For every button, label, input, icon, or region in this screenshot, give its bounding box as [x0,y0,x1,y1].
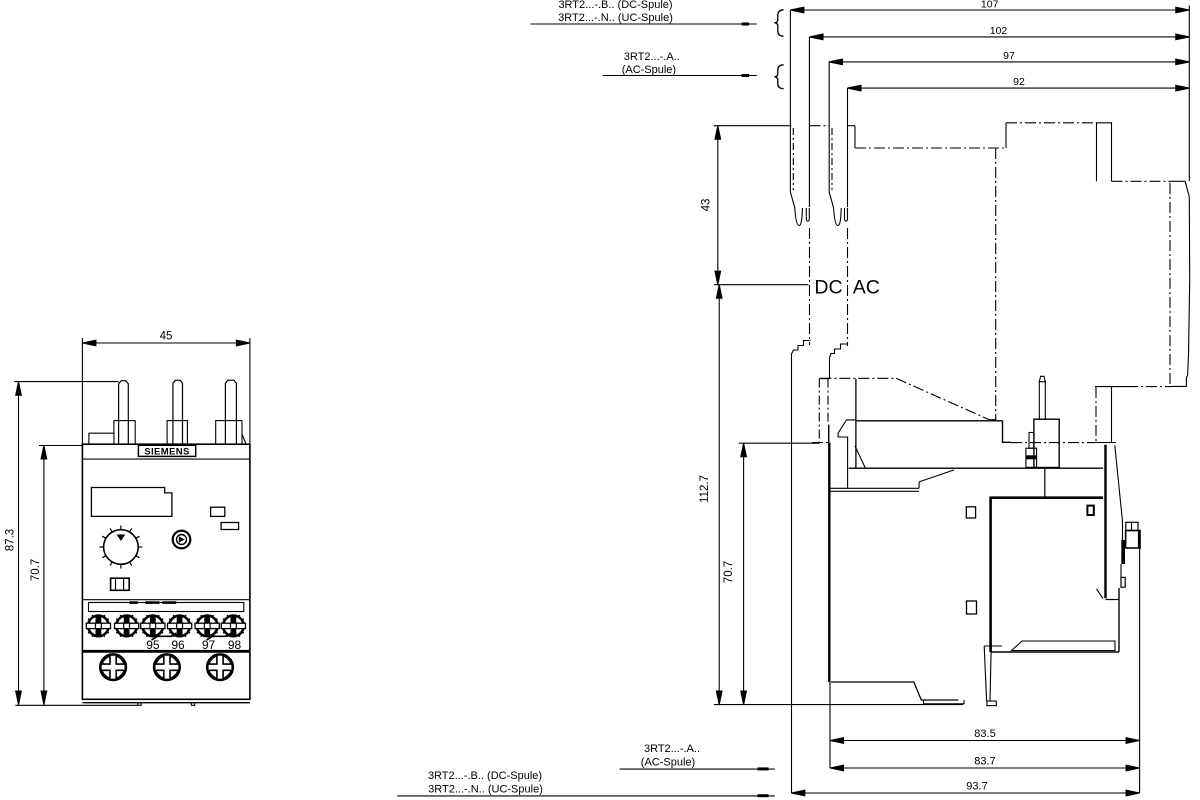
thick divider [82,650,250,653]
reset slider [111,578,130,590]
svg-text:96: 96 [171,638,185,652]
DC AC level line [714,284,809,286]
baseline bottom extension [714,704,963,706]
svg-text:83.7: 83.7 [974,756,995,768]
pin 3 collar [216,421,242,445]
dimension 43 [715,126,721,285]
relay top edge [856,420,1002,422]
terminal section divider [82,599,250,601]
right outer edge [1171,181,1190,386]
right extension line [1188,6,1190,182]
lower box [991,496,1103,499]
svg-text:AC: AC [853,277,880,299]
extension to bottom dims [1139,548,1141,793]
svg-text:95: 95 [146,638,160,652]
bottom foot [831,682,958,700]
pin DC outline [790,126,809,226]
dimension 83.5 [830,738,1140,744]
svg-text:107: 107 [981,0,999,11]
label window [91,488,171,517]
dimension 70.7 left [39,446,82,705]
svg-text:45: 45 [160,331,173,343]
svg-text:3RT2...-.A..: 3RT2...-.A.. [644,743,700,755]
dimension 102 [809,34,1189,207]
dimension 83.7 [830,765,1140,771]
terminal screw small 3 [141,615,165,637]
terminal screw small 5 [195,615,219,637]
terminal screw large 2 [155,655,180,680]
svg-text:70.7: 70.7 [30,559,42,581]
svg-text:70.7: 70.7 [723,561,735,583]
brace AC [774,65,783,89]
terminal screw small 2 [115,615,139,637]
svg-text:3RT2...-.A..: 3RT2...-.A.. [624,51,680,63]
terminal screw small 1 [86,615,110,637]
extension to 83.5/83.7 dims [829,682,831,768]
43 top extension / part top [714,125,792,127]
svg-text:43: 43 [701,199,713,212]
relay back edge [828,425,830,443]
svg-text:83.5: 83.5 [974,728,995,740]
step right of top edge [1003,421,1011,443]
recessed strip [89,603,244,612]
svg-text:DC: DC [814,277,842,299]
test button [173,531,191,549]
dimension 70.7 right [739,443,820,704]
svg-text:92: 92 [1013,76,1025,88]
terminal screw small 4 [168,615,192,637]
svg-text:3RT2...-.B.. (DC-Spule): 3RT2...-.B.. (DC-Spule) [558,0,672,11]
pin 3 blade [225,380,236,444]
svg-text:102: 102 [990,25,1008,37]
terminal screw large 1 [101,655,126,680]
bottom base [82,702,250,704]
label leader marks [152,633,177,640]
thin mounting strip [829,487,919,489]
pin 1 blade [119,381,129,445]
small rect A [211,507,225,516]
bracket AC [830,344,849,379]
svg-text:(AC-Spule): (AC-Spule) [622,64,676,76]
mid bottom edge [849,467,1103,469]
dimension 93.7 [791,790,1139,796]
svg-text:(AC-Spule): (AC-Spule) [641,757,695,769]
dimension 112.7 [716,285,722,705]
svg-text:97: 97 [202,638,216,652]
svg-text:3RT2...-.N.. (UC-Spule): 3RT2...-.N.. (UC-Spule) [558,12,673,24]
front vertical [855,379,857,469]
dimension 87.3 left [14,382,138,706]
terminal screw large 3 [208,655,233,680]
svg-text:97: 97 [1003,50,1015,62]
top right tab [1097,123,1112,182]
right mid tab [1095,386,1127,388]
relay body outline [82,444,250,699]
top strip line [82,458,250,460]
dimension 107 [790,7,1189,126]
phantom top of relay [820,377,896,379]
svg-text:98: 98 [228,638,242,652]
pin 2 blade [173,380,183,444]
svg-text:3RT2...-.B.. (DC-Spule): 3RT2...-.B.. (DC-Spule) [428,770,542,782]
release latch [984,646,986,701]
top hook [838,420,856,489]
svg-text:112.7: 112.7 [699,475,711,503]
pin 2 collar [167,421,187,445]
ledge left of pin 1 [89,433,114,444]
svg-text:87.3: 87.3 [5,529,17,551]
svg-text:SIEMENS: SIEMENS [144,447,190,458]
adjusting screw [1039,376,1045,381]
small rect B [221,523,239,530]
slanted front edge [1115,445,1123,540]
dimension 45 top [82,338,250,444]
terminal clamp right [1126,522,1138,530]
pin 1 collar [114,421,135,445]
brace DC/UC [774,10,783,36]
terminal screw small 6 [221,615,245,637]
svg-text:93.7: 93.7 [966,781,987,793]
dimension 92 [848,85,1190,207]
pin centerlines [809,228,811,345]
dimension 97 [829,59,1189,126]
adjustment dial [104,530,139,565]
inner bar [1012,641,1115,651]
small terminal screws row [86,615,245,637]
SIEMENS label box [138,445,195,456]
bracket DC [792,341,811,794]
svg-text:3RT2...-.N.. (UC-Spule): 3RT2...-.N.. (UC-Spule) [428,784,543,796]
large terminal screws row [101,655,233,680]
pin AC outline [829,126,847,226]
